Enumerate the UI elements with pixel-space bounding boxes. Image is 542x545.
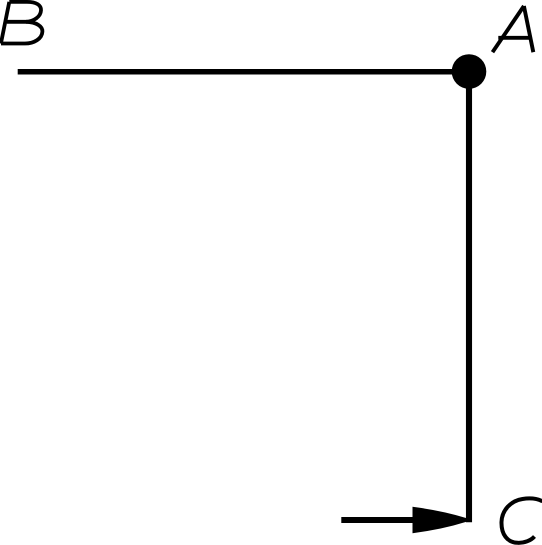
label B [1, 2, 43, 44]
wire B-A (horizontal segment) [18, 69, 469, 75]
label A [493, 6, 534, 52]
label C [501, 498, 542, 542]
wire A-C (vertical segment) [466, 72, 472, 523]
node A (junction dot) [452, 54, 487, 89]
arrow shaft (direction indicator toward node C) [341, 517, 413, 523]
arrowhead [413, 507, 467, 533]
